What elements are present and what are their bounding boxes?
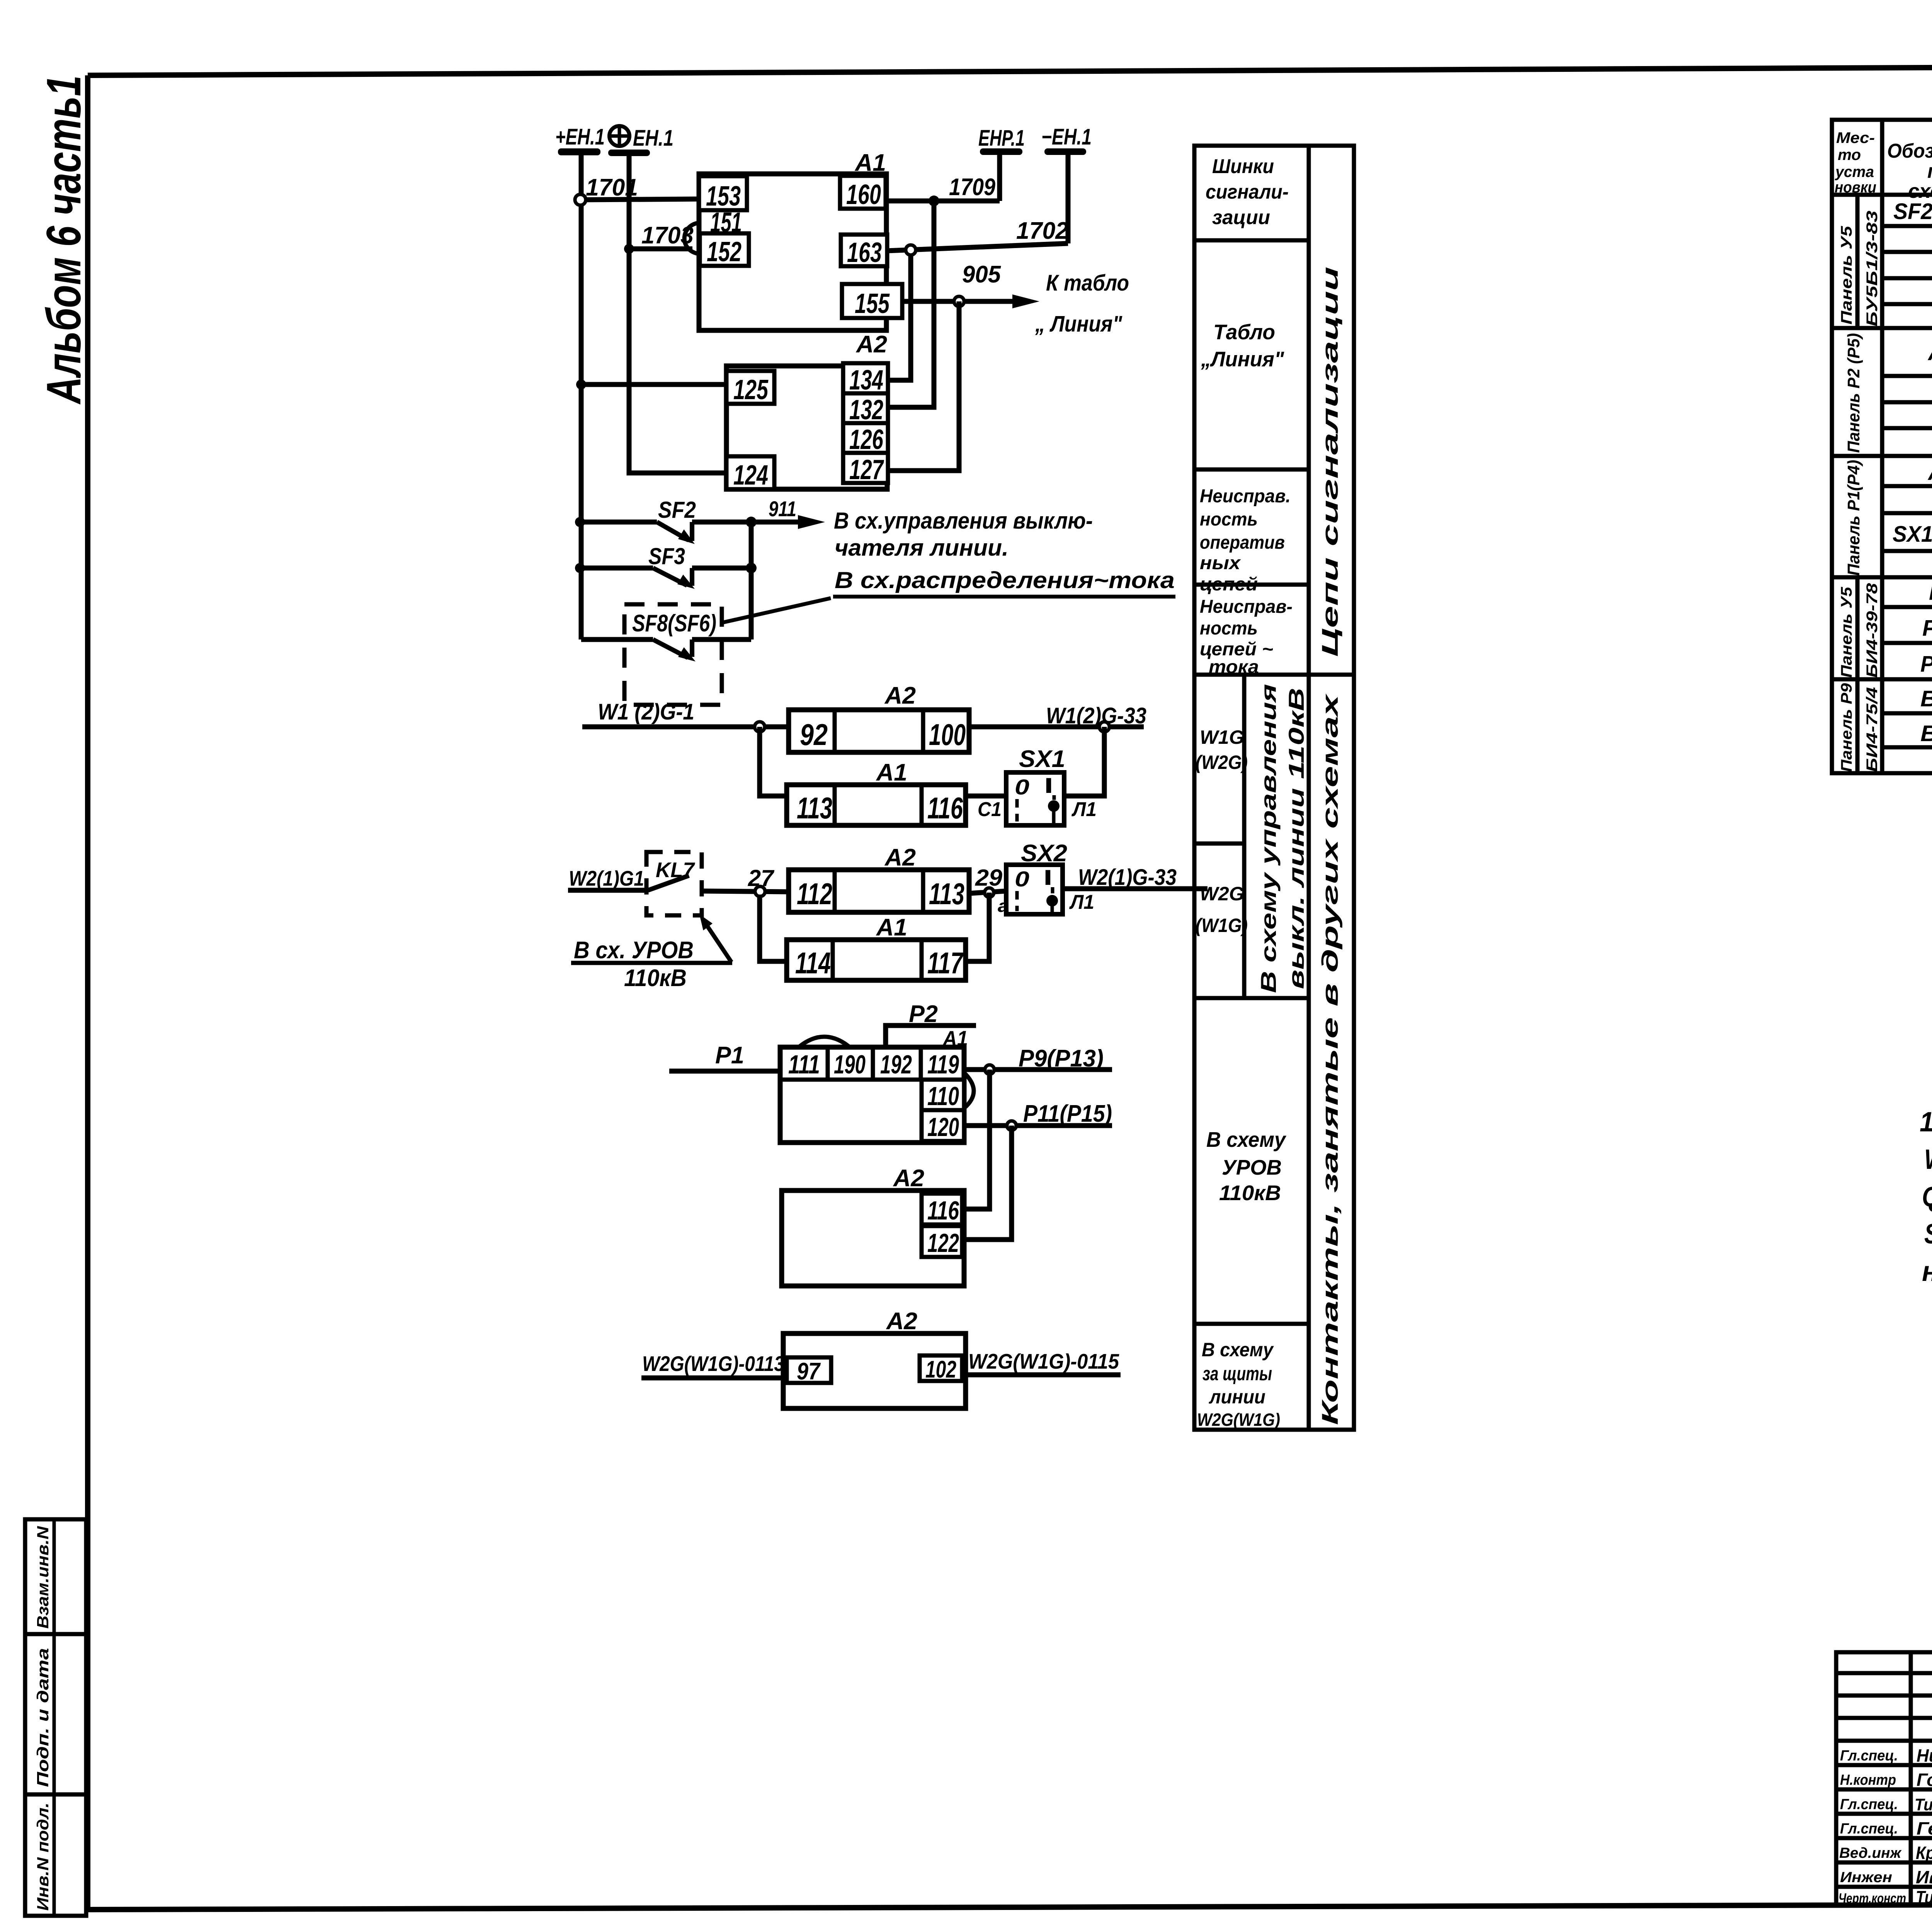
cell W2G (W1G) [1196,883,1248,936]
svg-text:110: 110 [927,1082,959,1111]
svg-text:БУ5Б1/3-83: БУ5Б1/3-83 [1864,211,1881,327]
wire 911 [746,497,1093,561]
svg-text:119: 119 [927,1050,959,1079]
wire 27 to block A2 [702,865,789,896]
svg-text:Тимофеева.: Тимофеева. [1916,1887,1932,1907]
svg-text:W2(1)G1: W2(1)G1 [569,866,644,890]
svg-text:ЕН.1: ЕН.1 [633,126,673,151]
wire 1702 [887,218,1068,251]
svg-text:сигнали-: сигнали- [1206,181,1289,203]
row SF2,SF3 breaker [1893,199,1932,231]
svg-text:(W2G): (W2G) [1196,752,1248,773]
svg-text:SF3: SF3 [648,543,685,569]
svg-text:125: 125 [733,374,769,405]
svg-text:92: 92 [800,718,828,752]
svg-text:за щиты: за щиты [1202,1363,1272,1384]
svg-text:БИ4-39-78: БИ4-39-78 [1864,583,1881,678]
svg-text:Гл.спец.: Гл.спец. [1840,1748,1898,1764]
terminal 122 [922,1226,962,1258]
svg-text:Гл.спец.: Гл.спец. [1840,1821,1898,1837]
signature row Тишковский [1840,1795,1932,1814]
svg-text:Никитин: Никитин [1917,1745,1932,1765]
svg-text:Вед.инж: Вед.инж [1839,1845,1902,1861]
wire P11 branch down to terminal 122 [962,1126,1012,1240]
svg-text:А2: А2 [855,331,887,358]
header Место установки [1835,129,1876,196]
svg-text:W1G ( W2G) вводится цепочка: W1G ( W2G) вводится цепочка отключения в… [1924,1144,1932,1175]
wire from junction 1709 down to terminal 132 [888,201,934,407]
svg-text:Q1 линии 110кВ W2G ( W1G) пр: Q1 линии 110кВ W2G ( W1G) при помощи пер… [1922,1182,1932,1213]
svg-text:новки: новки [1835,179,1876,196]
svg-text:911: 911 [769,497,796,521]
svg-text:не низкого напряжения.: не низкого напряжения. [1922,1256,1932,1287]
terminal 160 [840,176,886,210]
svg-text:В схему управления: В схему управления [1256,684,1281,993]
cell Неисправность оперативных цепей [1200,486,1291,595]
svg-text:1. В режиме ремонта выключа: 1. В режиме ремонта выключателя Q1 линии… [1920,1107,1932,1138]
signature row Горелик [1840,1770,1932,1790]
relay block A1 (signal panel) [699,150,886,330]
cell Неисправность цепей тока [1200,597,1293,677]
svg-text:W2G(W1G)-0113: W2G(W1G)-0113 [642,1352,784,1376]
row PVA1 varmeter [1920,650,1932,678]
row BW1 active energy meter [1920,686,1932,713]
relay block A1 row3 [787,914,966,980]
svg-text:„ Линия": „ Линия" [1035,311,1122,337]
terminal 102 [920,1355,962,1383]
svg-text:Ивачева: Ивачева [1916,1867,1932,1887]
jumper arc 119-110 [964,1073,974,1108]
svg-text:SF2, SF3: SF2, SF3 [1893,199,1932,224]
svg-text:116: 116 [927,791,963,825]
svg-text:SX1: SX1 [1019,746,1065,772]
svg-text:Неисправ-: Неисправ- [1200,597,1293,617]
svg-text:А1: А1 [1927,459,1932,485]
svg-text:152: 152 [707,236,742,267]
rotated Панель У5 БИ4-39-78 [1838,583,1881,678]
relay contact KL7 in dashed box [646,852,702,915]
svg-text:К табло: К табло [1046,270,1129,296]
switch SX1 [1006,746,1065,825]
svg-text:В сх.управления выклю-: В сх.управления выклю- [834,508,1093,534]
svg-text:110кВ: 110кВ [624,965,687,992]
wire 1709 [886,174,1000,206]
svg-text:ность: ность [1200,618,1258,639]
row BW2 energy meter [1920,719,1932,748]
svg-text:А2: А2 [893,1165,924,1192]
svg-text:то: то [1838,146,1861,163]
breaker SF2 [575,497,751,544]
wire left bus from +EH.1 [579,155,584,639]
svg-text:BW1: BW1 [1920,686,1932,711]
wire SX1 pin L1 up to W1(2)G-33 [1064,727,1104,821]
terminal 155 [842,284,902,319]
svg-text:127: 127 [849,454,884,485]
svg-text:В схему: В схему [1206,1128,1286,1151]
svg-text:120: 120 [927,1112,959,1142]
svg-text:122: 122 [927,1228,959,1258]
svg-text:W2G(W1G): W2G(W1G) [1197,1410,1280,1430]
node W2G(W1G)-0113 [641,1352,787,1378]
svg-text:А2: А2 [1927,339,1932,365]
svg-text:Шинки: Шинки [1212,155,1274,178]
svg-text:0: 0 [1015,867,1029,891]
svg-text:С1: С1 [978,798,1002,821]
svg-text:−ЕН.1: −ЕН.1 [1041,124,1092,150]
svg-text:Панель Р2 (Р5): Панель Р2 (Р5) [1844,333,1863,453]
svg-text:W2G(W1G)-0115: W2G(W1G)-0115 [968,1349,1119,1373]
wire 1701 [575,174,699,205]
callout to current distribution scheme [721,567,1175,623]
svg-text:Обозначен.: Обозначен. [1887,140,1932,162]
wire 29 to SX2 [969,865,1009,916]
svg-text:1702: 1702 [1016,218,1068,244]
signature row Ивачева [1840,1867,1932,1887]
svg-text:(W1G): (W1G) [1196,915,1248,936]
svg-text:124: 124 [733,460,768,491]
svg-text:111: 111 [788,1050,820,1079]
wire 117 up to SX2 input [966,893,989,961]
svg-text:Панель У5: Панель У5 [1838,587,1855,678]
wire from terminal 127 up to 905 [888,301,959,471]
svg-text:Подп. и дата: Подп. и дата [34,1648,52,1787]
svg-text:I: I [1044,773,1053,798]
node W1(2)G-1 [582,699,789,732]
svg-text:А2: А2 [884,844,916,871]
wire P11(P15) [964,1100,1112,1130]
terminal 153 [699,176,747,212]
svg-text:W2(1)G-33: W2(1)G-33 [1078,865,1177,890]
svg-text:100: 100 [929,718,966,752]
node W1(2)G-33 [969,703,1146,732]
row PA ammeter [1929,578,1932,605]
signal assignment column table [1194,146,1354,1430]
svg-text:РА: РА [1929,580,1932,605]
svg-text:В сх.распределения~тока: В сх.распределения~тока [835,567,1175,593]
svg-text:Альбом 6 часть1: Альбом 6 часть1 [37,75,91,405]
row A2 protection panel [1927,339,1932,366]
svg-text:SF2: SF2 [658,497,696,523]
svg-text:выкл. линии 110кВ: выкл. линии 110кВ [1284,688,1308,989]
rotated Панель У5 БУ5Б1/3-83 [1838,211,1881,327]
svg-text:Панель Р1(Р4): Панель Р1(Р4) [1844,460,1863,576]
svg-text:Л1: Л1 [1071,798,1097,821]
svg-text:Контакты, занятые в других: Контакты, занятые в других схемах [1318,693,1343,1425]
equipment table grid [1832,120,1932,773]
svg-text:SX1, SX2: SX1, SX2 [1893,522,1932,547]
svg-text:905: 905 [962,261,1001,288]
wire branch to terminal 114 [760,895,787,961]
node P2 bracket [886,1001,976,1047]
header Обозначен. по схеме [1887,140,1932,202]
svg-text:цепей: цепей [1200,574,1258,595]
wire branch to terminal 113 [760,727,789,796]
signature row Тимофеева [1838,1887,1932,1907]
svg-text:Панель У5: Панель У5 [1838,226,1855,325]
node W2G(W1G)-0115 [962,1349,1121,1375]
svg-text:А1: А1 [876,914,907,941]
svg-text:Р1: Р1 [715,1042,744,1069]
svg-text:В сх. УРОВ: В сх. УРОВ [574,937,694,964]
svg-text:линии: линии [1209,1386,1265,1408]
svg-text:Тишковский: Тишковский [1915,1795,1932,1814]
svg-text:192: 192 [880,1050,912,1079]
svg-text:114: 114 [795,946,831,980]
svg-text:ность: ность [1200,509,1258,530]
terminal 127 [843,453,888,485]
svg-text:132: 132 [849,395,883,425]
wire junction column SF2-SF3-SF8 [746,522,757,639]
cell Шинки сигнализации [1206,155,1289,229]
svg-text:PVA1: PVA1 [1920,651,1932,677]
svg-text:Н.контр: Н.контр [1840,1772,1896,1788]
svg-text:Л1: Л1 [1069,891,1094,913]
cell В схему защиты линии W2G(W1G) [1197,1339,1280,1430]
svg-text:Крутикова: Крутикова [1916,1843,1932,1863]
svg-text:Взам.инв.N: Взам.инв.N [34,1526,52,1629]
bus EHP.1 [978,126,1025,155]
relay block A1 row2 [787,759,966,825]
svg-text:117: 117 [927,946,964,980]
bus (+)EH.1 [608,126,673,156]
svg-text:27: 27 [748,865,775,891]
svg-text:1709: 1709 [949,174,995,201]
wire second bus from (+)EH.1 down to terminal 124 [629,156,726,473]
svg-text:чателя линии.: чателя линии. [835,535,1009,561]
cell W1G (W2G) [1196,726,1248,773]
terminal 163 [841,235,887,268]
svg-text:SF8(SF6): SF8(SF6) [632,610,716,637]
wire 1703 [624,222,698,254]
svg-text:Цепи сигнализации: Цепи сигнализации [1318,267,1343,657]
svg-text:Черт.конст: Черт.конст [1838,1890,1906,1906]
svg-text:W1 (2)G-1: W1 (2)G-1 [598,699,694,724]
node W2(1)G1 [568,866,646,890]
wire P9 branch down to terminal 116 [962,1070,990,1209]
rotated label В схему управления выкл. линии 110кВ [1256,684,1308,993]
terminal 97 [787,1357,831,1385]
svg-text:113: 113 [797,791,832,825]
wire from -EH.1 bus down to 1702 [1066,155,1071,243]
signature row Гессен [1840,1818,1932,1838]
breaker SF3 [575,543,751,589]
svg-text:зации: зации [1212,206,1270,229]
breaker SF8(SF6) in dashed box [581,604,751,705]
svg-text:PW1: PW1 [1922,616,1932,641]
svg-text:+ЕН.1: +ЕН.1 [555,124,605,150]
svg-text:110кВ: 110кВ [1219,1181,1281,1205]
wire bus to terminal 125 [576,379,726,389]
svg-text:113: 113 [929,877,964,911]
svg-text:Инжен: Инжен [1840,1869,1892,1886]
svg-text:В схему: В схему [1202,1339,1274,1361]
svg-text:155: 155 [855,288,890,319]
signature row Крутикова [1839,1843,1932,1863]
svg-text:1701: 1701 [586,174,638,201]
svg-text:Инв.N подл.: Инв.N подл. [34,1803,52,1911]
terminal 152 [700,233,749,267]
svg-text:Горелик: Горелик [1917,1770,1932,1790]
svg-text:I: I [1043,865,1053,889]
row PW1 wattmeter [1922,614,1932,642]
svg-text:97: 97 [797,1358,821,1385]
svg-text:А1: А1 [876,759,907,786]
note paragraph [1920,1107,1932,1287]
svg-text:Табло: Табло [1213,320,1275,344]
rotated Панель Р9 БИ4-75/4 [1838,683,1881,772]
svg-text:Мес-: Мес- [1836,129,1875,146]
svg-text:„Линия": „Линия" [1201,347,1284,371]
relay block A2 row6 [783,1308,966,1408]
doc margin box Инв.N подл. [25,1794,86,1916]
svg-text:Панель Р9: Панель Р9 [1838,683,1855,772]
svg-text:Гессен: Гессен [1917,1818,1932,1838]
svg-text:УРОВ: УРОВ [1222,1155,1282,1179]
doc margin box Подп. и дата [25,1634,86,1794]
wire from terminal 134 up to 1702 [888,245,916,380]
svg-text:W1G: W1G [1200,726,1244,748]
wire 116 to SX1 pin C1 [966,796,1006,821]
svg-text:уста: уста [1835,163,1874,180]
row A1 protection panel [1927,459,1932,488]
terminal 110 [922,1080,964,1111]
terminal 124 [726,456,774,491]
relay block A2 row2 [789,682,969,752]
svg-text:W2G: W2G [1200,883,1244,905]
terminal 126 [843,423,888,455]
svg-text:SX2 при наличии еенерирующи: SX2 при наличии еенерирующих источников … [1924,1219,1932,1250]
relay block A2 (signal panel) [726,331,887,489]
cell В схему УРОВ 110кВ [1206,1128,1286,1205]
svg-text:160: 160 [846,179,881,210]
svg-text:190: 190 [834,1050,866,1079]
svg-text:ных: ных [1200,553,1241,573]
terminal 116b [922,1194,962,1225]
svg-text:102: 102 [925,1356,956,1383]
wire P9(P13) [964,1045,1112,1074]
bus +EH.1 [555,124,605,155]
svg-text:А2: А2 [886,1308,917,1335]
svg-text:А2: А2 [884,682,916,709]
svg-text:134: 134 [849,365,883,396]
svg-text:Неисправ.: Неисправ. [1200,486,1291,507]
terminal 132 [843,393,888,425]
switch SX2 [1006,840,1067,914]
wire from EHP.1 bus down [997,155,1002,201]
svg-text:оператив: оператив [1200,532,1285,553]
svg-text:по: по [1927,160,1932,182]
callout to UROV 110kV scheme [571,914,732,992]
relay block A2 row5 [782,1165,964,1286]
cell Табло Линия [1201,320,1284,371]
node W2(1)G-33 [1063,865,1207,913]
svg-text:ЕНР.1: ЕНР.1 [978,126,1025,151]
svg-text:112: 112 [797,877,832,911]
terminal 134 [843,363,888,396]
bus -EH.1 [1041,124,1092,155]
doc margin box Взам.инв.N [25,1519,86,1634]
terminal 120 [922,1110,964,1142]
row SX1,SX2 switch [1893,515,1932,550]
relay block A2 row3 [789,844,969,912]
svg-text:0: 0 [1015,775,1029,799]
svg-text:тока: тока [1209,657,1259,677]
svg-text:126: 126 [849,424,884,455]
relay block A1 with P terminals [780,1026,968,1143]
title block signature table [1836,1652,1932,1905]
terminal 125 [726,371,774,405]
wire 905 to tableau [902,261,1129,337]
svg-text:163: 163 [847,237,882,268]
svg-text:116: 116 [927,1196,959,1225]
svg-text:Гл.спец.: Гл.спец. [1840,1796,1898,1813]
svg-text:БИ4-75/4: БИ4-75/4 [1864,687,1881,772]
node P1 [669,1042,782,1071]
svg-text:BW2: BW2 [1920,721,1932,746]
signature row Никитин [1840,1745,1932,1765]
